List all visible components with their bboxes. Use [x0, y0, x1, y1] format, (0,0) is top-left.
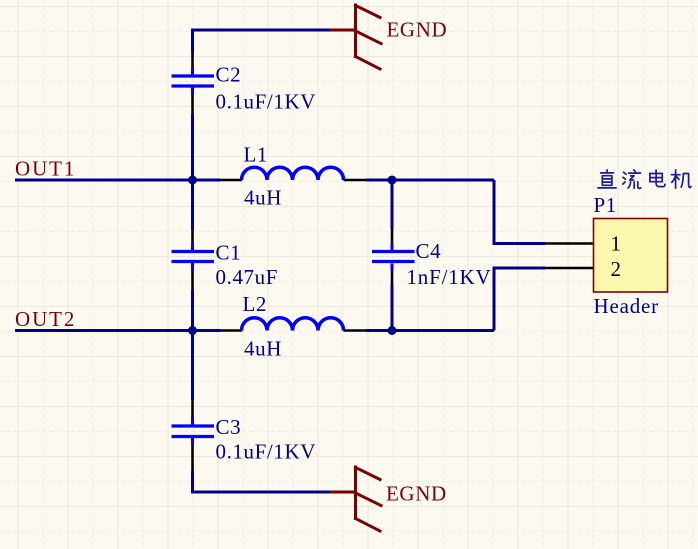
svg-text:C4: C4 [416, 239, 442, 263]
label 直流电机 (DC motor) hand-drawn glyphs [598, 170, 691, 189]
svg-text:L2: L2 [243, 292, 268, 316]
capacitor C2 [172, 53, 215, 114]
wire L2 to corner [367, 329, 495, 332]
wire OUT2 node to C3 [191, 331, 194, 401]
svg-text:1nF/1KV: 1nF/1KV [407, 265, 492, 289]
capacitor C3 [172, 400, 215, 471]
wire C4 bottom lead [391, 285, 394, 331]
junction node C4 bottom [388, 326, 397, 335]
svg-text:C2: C2 [216, 63, 242, 87]
svg-text:1: 1 [610, 232, 621, 256]
svg-text:4uH: 4uH [244, 337, 282, 361]
junction OUT1/C1 node [188, 176, 197, 185]
svg-text:Header: Header [594, 294, 659, 318]
svg-text:OUT1: OUT1 [15, 157, 76, 181]
svg-text:C3: C3 [216, 415, 242, 439]
power port EGND top [331, 5, 381, 69]
capacitor C4 [372, 229, 415, 285]
svg-text:2: 2 [610, 257, 621, 281]
power port EGND bottom [331, 467, 381, 531]
svg-text:EGND: EGND [386, 482, 447, 506]
wire C1 top lead [191, 180, 194, 230]
svg-text:OUT2: OUT2 [15, 307, 76, 331]
wire OUT1 [15, 179, 220, 182]
svg-text:0.1uF/1KV: 0.1uF/1KV [216, 90, 317, 114]
wire L1 to header corner [367, 179, 495, 182]
svg-text:0.1uF/1KV: 0.1uF/1KV [216, 440, 317, 464]
junction node C4 top [388, 176, 397, 185]
svg-text:EGND: EGND [387, 18, 448, 42]
wire top EGND run [193, 30, 332, 53]
svg-text:P1: P1 [594, 193, 617, 217]
svg-text:0.47uF: 0.47uF [216, 265, 279, 289]
svg-text:C1: C1 [216, 241, 242, 265]
junction OUT2/C1 node [188, 326, 197, 335]
wire bottom EGND run [193, 471, 332, 492]
wire C2 to OUT1 node [191, 114, 194, 180]
wire header pin1 run [494, 180, 545, 244]
pin 1 of P1 [545, 242, 594, 245]
svg-text:4uH: 4uH [244, 186, 282, 210]
svg-text:L1: L1 [244, 143, 269, 167]
wire OUT2 [15, 329, 220, 332]
inductor L1 [220, 167, 367, 180]
capacitor C1 [172, 230, 215, 290]
connector P1 body [594, 219, 668, 293]
pin 2 of P1 [545, 267, 594, 270]
wire header pin2 run [494, 268, 545, 331]
wire C4 top lead [391, 180, 394, 229]
wire C1 bottom lead [191, 290, 194, 331]
inductor L2 [220, 318, 367, 331]
